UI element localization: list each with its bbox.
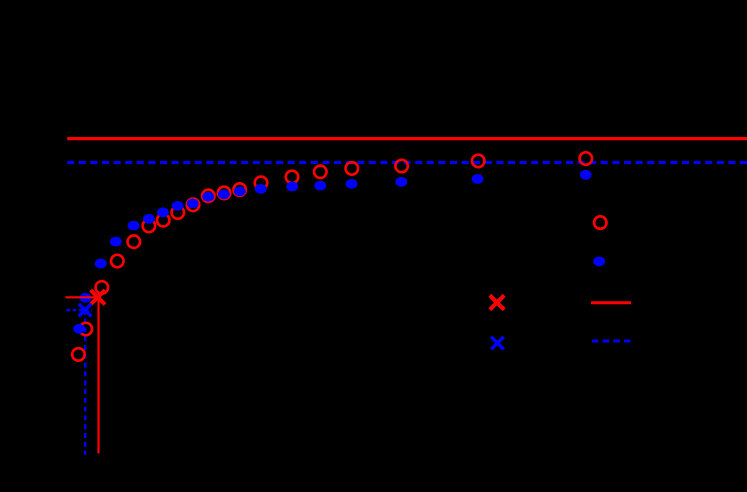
legend blue filled dot bbox=[593, 257, 605, 267]
blue point 7 bbox=[157, 207, 169, 217]
red point 11 bbox=[218, 187, 231, 200]
red point 3 bbox=[96, 281, 109, 294]
blue point 13 bbox=[255, 184, 267, 194]
red point 5 bbox=[128, 235, 141, 248]
red point 8 bbox=[172, 206, 185, 219]
red point 6 bbox=[143, 220, 156, 233]
blue point 15 bbox=[314, 181, 326, 191]
blue point 3 bbox=[95, 259, 107, 269]
red point 1 bbox=[72, 348, 85, 361]
blue dashed asymptote line bbox=[67, 161, 747, 164]
blue point 5 bbox=[128, 221, 140, 231]
red point 19 bbox=[580, 152, 593, 165]
blue point 11 bbox=[218, 189, 230, 199]
blue dashed horizontal drop line bbox=[67, 309, 93, 311]
blue point 6 bbox=[143, 214, 155, 224]
blue point 8 bbox=[172, 201, 184, 211]
red X extrapolation marker bbox=[91, 290, 105, 304]
blue dashed vertical drop line bbox=[84, 310, 86, 455]
legend red open circle bbox=[594, 216, 607, 229]
blue point 10 bbox=[202, 192, 214, 202]
red point 16 bbox=[346, 162, 359, 175]
blue point 4 bbox=[110, 237, 122, 247]
legend red solid line sample bbox=[591, 301, 631, 304]
blue point 12 bbox=[234, 186, 246, 196]
blue point 2 bbox=[80, 293, 92, 303]
red solid vertical drop line bbox=[97, 297, 99, 454]
blue point 19 bbox=[580, 170, 592, 180]
blue point 17 bbox=[395, 177, 407, 187]
red point 14 bbox=[286, 171, 299, 184]
red point 13 bbox=[255, 177, 268, 190]
red point 15 bbox=[314, 166, 327, 179]
blue filled-dot data series bbox=[73, 170, 591, 334]
red point 7 bbox=[157, 214, 170, 227]
red solid asymptote line bbox=[67, 137, 747, 140]
red open-circle data series bbox=[72, 152, 592, 360]
red point 10 bbox=[202, 190, 215, 203]
red solid horizontal drop line bbox=[66, 296, 99, 298]
blue point 14 bbox=[286, 182, 298, 192]
blue point 1 bbox=[73, 324, 85, 334]
red point 18 bbox=[472, 155, 485, 168]
blue point 16 bbox=[346, 179, 358, 189]
red point 17 bbox=[395, 160, 408, 173]
blue point 9 bbox=[187, 199, 199, 209]
red point 2 bbox=[80, 323, 93, 336]
blue X extrapolation marker bbox=[79, 304, 92, 317]
legend blue dashed line sample bbox=[592, 340, 631, 343]
red point 9 bbox=[187, 199, 200, 212]
blue point 18 bbox=[472, 174, 484, 184]
red point 12 bbox=[233, 183, 246, 196]
red point 4 bbox=[111, 255, 124, 268]
legend red X marker bbox=[490, 295, 504, 309]
legend blue X marker bbox=[491, 337, 504, 350]
